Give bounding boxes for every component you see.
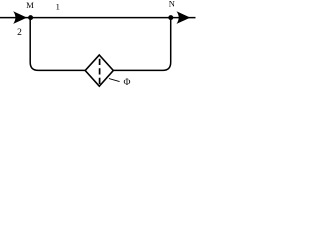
node M <box>28 15 33 20</box>
wire left vertical from M with rounded corner <box>30 18 85 71</box>
svg-text:N: N <box>169 0 175 8</box>
wire right vertical from N with rounded corner <box>113 18 170 71</box>
arrowhead into node M <box>13 11 27 24</box>
svg-text:Φ: Φ <box>124 78 131 88</box>
dashed line inside source <box>99 59 101 84</box>
arrowhead out of node N <box>177 11 191 24</box>
leader line to label Phi <box>109 79 120 82</box>
svg-text:M: M <box>26 0 34 10</box>
node N <box>168 15 173 20</box>
svg-text:2: 2 <box>17 28 22 38</box>
wire top M-N <box>0 17 196 19</box>
svg-text:1: 1 <box>56 2 60 12</box>
source diamond (flux source) <box>85 55 113 86</box>
